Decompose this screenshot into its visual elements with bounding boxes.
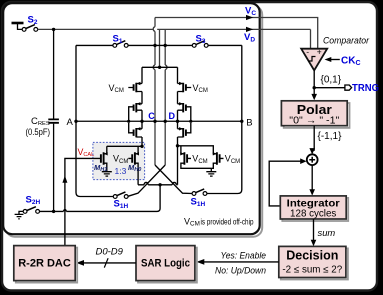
- wire S2 to tail and VD run: [38, 28, 311, 30]
- wire cal drain rail: [107, 145, 142, 147]
- node col left: [140, 120, 143, 123]
- wire top connector rail: [142, 66, 178, 68]
- wire Vc top: [155, 18, 318, 49]
- block SAR Logic: [138, 248, 197, 283]
- wire right pair rail: [178, 146, 217, 154]
- svg-text:is provided off-chip: is provided off-chip: [201, 217, 254, 227]
- svg-text:-: -: [306, 47, 309, 57]
- node A: [74, 120, 77, 123]
- hop bottom rail over C diagonal: [172, 182, 176, 184]
- svg-text:1:3: 1:3: [115, 166, 127, 176]
- wire left column: [141, 67, 143, 146]
- node left column cal: [140, 145, 143, 148]
- arrow into Polar: [311, 94, 317, 100]
- transistor M2 right cross-coupled: [183, 103, 186, 112]
- svg-text:D: D: [169, 111, 176, 121]
- wire right column: [177, 67, 179, 185]
- comparator output wire: [313, 70, 315, 96]
- ground MH1: [102, 172, 112, 176]
- node TRNG tap: [313, 86, 316, 89]
- node B: [240, 120, 243, 123]
- wire node line A-B: [76, 120, 242, 122]
- port TRNG: [345, 85, 352, 90]
- node M2 right gate: [189, 120, 192, 123]
- node C: [153, 120, 156, 123]
- wire right bus D: [164, 29, 166, 165]
- wire tail bottom rail: [138, 184, 178, 186]
- wire left bus C: [154, 18, 156, 166]
- arrow into SAR Logic: [197, 259, 205, 265]
- transistor lead arrows: [104, 82, 217, 156]
- hop left bus over VD wire: [153, 27, 155, 32]
- transistor M1 right: [183, 83, 186, 92]
- arrow DAC feedback up: [62, 176, 67, 183]
- node S2 junction: [52, 28, 55, 31]
- svg-text:{-1,1}: {-1,1}: [318, 131, 343, 142]
- transistor MH0: [132, 152, 135, 165]
- ground S2H: [15, 211, 24, 218]
- block Decision: [281, 248, 348, 279]
- comparator hysteresis mark: [309, 57, 316, 62]
- node tail top: [158, 66, 161, 69]
- transistor MP2 right pair: [217, 152, 220, 165]
- wire Decision to SAR: [200, 261, 279, 263]
- svg-text:Decision: Decision: [286, 249, 338, 263]
- wire capacitor column: [53, 29, 55, 211]
- wire adder to integrator: [311, 165, 313, 192]
- svg-text:B: B: [246, 118, 252, 129]
- block Integrator: [282, 198, 348, 221]
- comparator U1: [301, 49, 327, 71]
- svg-text:-2 ≤ sum ≤ 2?: -2 ≤ sum ≤ 2?: [282, 265, 342, 276]
- wire VD drop to comparator: [310, 29, 312, 48]
- bus slash D0-D9: [104, 258, 108, 267]
- switch S1H bottom-right: [192, 192, 196, 196]
- arrow into adder: [309, 148, 315, 154]
- transistor MP1 right pair: [184, 152, 187, 165]
- wire left side A column: [76, 45, 113, 196]
- svg-text:R-2R DAC: R-2R DAC: [18, 258, 71, 270]
- block R-2R DAC: [16, 248, 77, 283]
- arrow feedback into adder: [300, 158, 306, 164]
- arrow into Decision: [311, 240, 317, 246]
- hop left bus over tail wire: [153, 65, 155, 70]
- hop right bus over tail wire: [165, 65, 167, 70]
- wire cross-couple D to left switch: [128, 165, 165, 196]
- node S3 right bus: [164, 44, 167, 47]
- hop bottom rail over D diagonal: [144, 182, 148, 184]
- calibration dashed box: [93, 142, 145, 179]
- node S1 left bus: [153, 44, 156, 47]
- svg-text:{0,1}: {0,1}: [321, 75, 342, 86]
- arrow into R-2R DAC: [76, 260, 84, 266]
- svg-text:Comparator: Comparator: [323, 36, 370, 47]
- transistor M3 right: [183, 128, 186, 137]
- arrow VD direction: [246, 27, 253, 32]
- svg-text:(0.5pF): (0.5pF): [26, 127, 51, 137]
- node col right: [176, 120, 179, 123]
- wire tail to S2H: [40, 185, 160, 212]
- switch S1: [113, 44, 117, 48]
- hop S2H wire over DAC line: [64, 210, 67, 212]
- switch S2H: [23, 210, 27, 214]
- wire TRNG tap: [314, 87, 345, 89]
- svg-text:SAR Logic: SAR Logic: [141, 258, 190, 270]
- arrow into Integrator: [309, 189, 315, 195]
- switch S2: [22, 25, 37, 32]
- wire Polar to adder: [313, 126, 315, 151]
- svg-text:TRNG: TRNG: [352, 83, 379, 94]
- analog section box: [3, 3, 260, 234]
- svg-text:D0-D9: D0-D9: [96, 246, 124, 257]
- transistor M1 left: [134, 83, 137, 92]
- wire S2 tail drop: [159, 29, 161, 67]
- wire SAR to DAC bus: [80, 262, 137, 264]
- capacitor CRES: [48, 119, 59, 122]
- arrow Vc direction: [246, 15, 253, 20]
- node S2H cap junction: [52, 210, 55, 213]
- svg-text:Yes: Enable: Yes: Enable: [221, 250, 267, 261]
- node M2 gate: [127, 120, 130, 123]
- analog section box shadow: [6, 6, 263, 237]
- svg-text:C: C: [148, 111, 155, 121]
- svg-text:"0" → " -1": "0" → " -1": [289, 115, 340, 126]
- wire DAC feedback: [65, 158, 101, 245]
- switch S3: [192, 44, 196, 48]
- transistor MH1: [101, 152, 104, 165]
- wire right side B column: [207, 45, 242, 193]
- arrow CKc into comparator: [330, 59, 340, 61]
- ground rail top-left: [12, 23, 24, 29]
- node D: [164, 120, 167, 123]
- svg-text:A: A: [67, 117, 74, 128]
- svg-text:sum: sum: [318, 227, 336, 238]
- wire integrator feedback loop: [269, 161, 303, 206]
- wire integrator to decision: [313, 219, 315, 243]
- ground right pair: [206, 168, 216, 176]
- node right column pair: [176, 144, 179, 147]
- wire S1/S3 top rail: [76, 44, 242, 46]
- svg-text:128 cycles: 128 cycles: [290, 209, 336, 220]
- transistor M3 left: [134, 128, 137, 137]
- transistor M2 left cross-coupled: [134, 103, 137, 112]
- svg-text:+: +: [317, 47, 322, 57]
- block Polar: [284, 103, 350, 128]
- node tail center: [158, 183, 161, 186]
- switch S1H bottom-left: [113, 195, 117, 199]
- wire cross-couple C to right switch: [155, 165, 192, 194]
- svg-text:No: Up/Down: No: Up/Down: [215, 264, 266, 275]
- adder sum node: [307, 154, 318, 165]
